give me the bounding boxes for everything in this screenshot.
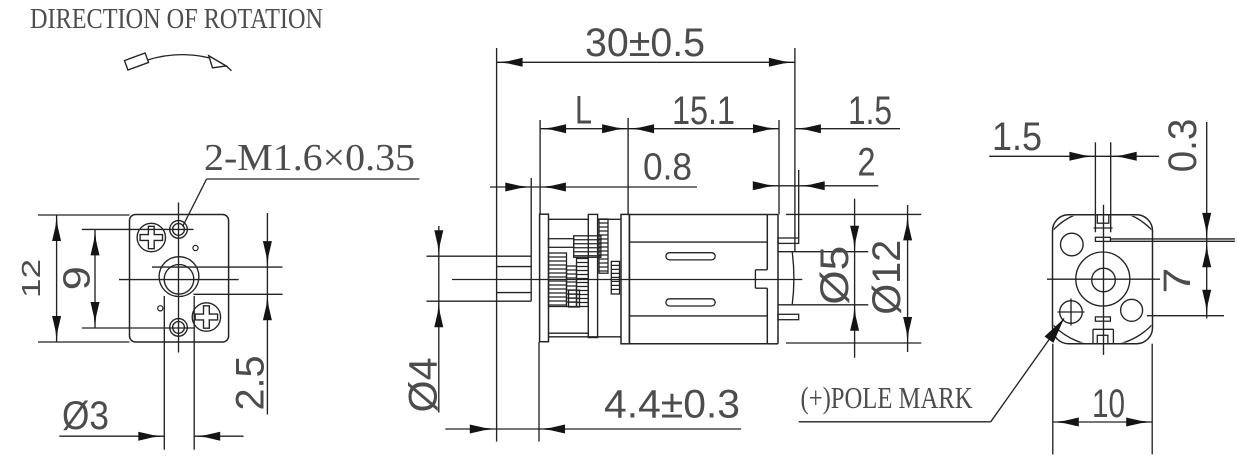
svg-text:30±0.5: 30±0.5 <box>585 21 705 65</box>
svg-text:Ø12: Ø12 <box>865 240 909 315</box>
svg-text:Ø5: Ø5 <box>813 246 857 305</box>
svg-text:15.1: 15.1 <box>672 89 735 133</box>
svg-text:2.5: 2.5 <box>228 356 272 411</box>
svg-text:Ø3: Ø3 <box>62 394 109 438</box>
svg-text:0.3: 0.3 <box>1161 119 1205 173</box>
svg-text:12: 12 <box>16 259 46 298</box>
svg-text:2: 2 <box>858 141 876 185</box>
svg-text:10: 10 <box>1092 382 1125 426</box>
svg-text:DIRECTION OF ROTATION: DIRECTION OF ROTATION <box>30 3 323 35</box>
svg-text:7: 7 <box>1157 268 1199 294</box>
svg-text:(+)POLE MARK: (+)POLE MARK <box>801 380 973 415</box>
svg-text:2-M1.6×0.35: 2-M1.6×0.35 <box>204 137 415 179</box>
svg-text:4.4±0.3: 4.4±0.3 <box>604 383 740 427</box>
svg-text:1.5: 1.5 <box>992 115 1042 159</box>
svg-text:0.8: 0.8 <box>643 147 692 189</box>
svg-text:9: 9 <box>57 266 99 290</box>
svg-text:L: L <box>575 89 592 133</box>
svg-text:Ø4: Ø4 <box>401 358 445 413</box>
svg-text:1.5: 1.5 <box>848 89 892 133</box>
